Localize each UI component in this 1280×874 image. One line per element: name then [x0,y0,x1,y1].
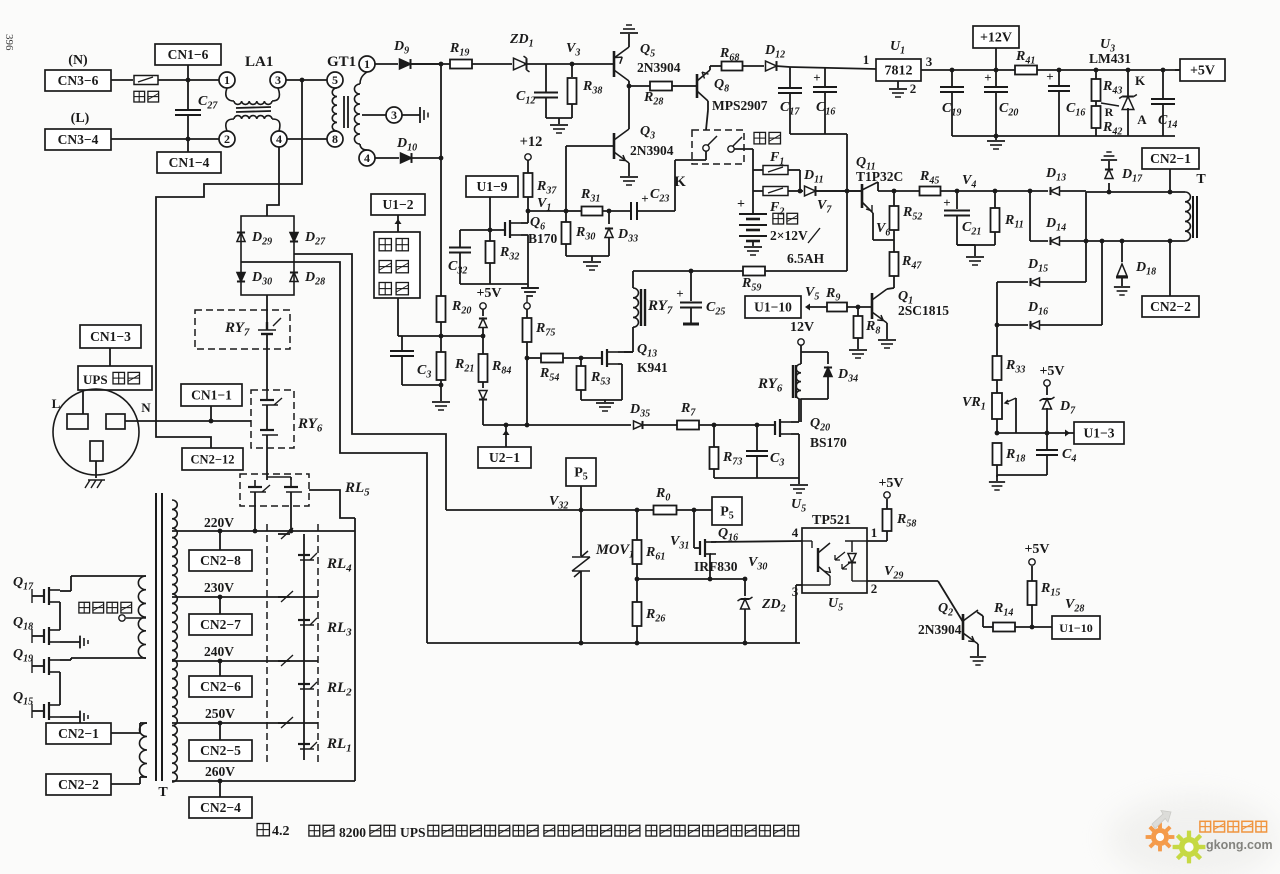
svg-text:T: T [158,785,168,800]
RL ladder solid bus [303,534,305,760]
diode D16 [997,324,1028,326]
wire R31 to C23 [603,210,630,212]
wire 250V tap [172,722,318,724]
svg-text:CN2−1: CN2−1 [1150,151,1191,166]
wire 12V down [800,345,802,364]
svg-text:BS170: BS170 [810,435,847,450]
svg-text:MOV1: MOV1 [595,542,634,561]
svg-text:gkong.com: gkong.com [1206,838,1273,852]
wire N to RY6 contacts [125,420,251,422]
wire Q6 gate [460,229,505,231]
wire pin2 V29 [867,580,938,582]
svg-text:2: 2 [224,132,230,146]
wire RL5 entry [266,474,268,480]
wire R41 to +5V box [1037,69,1180,71]
transformer T secondary winding [172,500,177,782]
wire Q17/Q18 drains [60,590,71,592]
resistor R41 [1015,66,1037,75]
connector U1-3 [1074,422,1124,444]
mosfet Q13 K941 [601,351,603,365]
resistor R7 [677,421,699,430]
wire Q5 emitter down [628,81,630,86]
wire 市电 box down [397,298,399,336]
resistor R28 [629,85,650,87]
terminal (R75 top) [524,303,530,309]
svg-text:CN2−2: CN2−2 [58,777,99,792]
wire CN3-4 to LA1 pin2 [111,138,219,140]
capacitor C16b [1058,70,1060,86]
svg-text:CN2−4: CN2−4 [200,800,241,815]
LA1 pin 4 [271,131,287,147]
svg-text:8: 8 [332,132,338,146]
svg-text:CN3−4: CN3−4 [58,132,99,147]
wire K right to fuses [734,148,753,150]
wire VR1 to U1-3 [996,419,998,433]
svg-text:250V: 250V [205,706,235,721]
power +5V box [1180,59,1225,81]
wire Q11 collector [877,182,879,191]
svg-text:CN2−5: CN2−5 [200,743,241,758]
svg-text:+5V: +5V [878,476,903,491]
mosfet Q19 [43,659,45,673]
diode D9 [375,63,398,65]
wire C3 top [402,335,441,337]
wire drain bus to winding top [71,575,146,577]
wire RL5 to 220V [254,492,256,531]
svg-text:2N3904: 2N3904 [630,143,674,158]
relay K contact box [692,130,744,164]
wire R14 to U1-10b [1015,626,1052,628]
svg-text:U1−10: U1−10 [754,300,792,315]
outlet prong N [106,414,125,429]
diode D17 [1108,183,1110,192]
wire Q11 emitter V6 [872,213,874,240]
ground (rail) [995,136,997,140]
wire R68 to D12 [743,65,764,67]
transistor Q11 T1P32C [861,184,864,208]
capacitor C12 [545,64,547,92]
battery 2x12V 6.5AH [739,213,767,215]
TP521 phototransistor [817,548,819,572]
GT1 core [343,96,345,128]
diode D30 [237,273,245,282]
LA1 pin 2 [219,131,235,147]
svg-text:+: + [676,286,683,301]
svg-text:+5V: +5V [1190,64,1215,79]
connector U1-10 [745,296,801,318]
svg-text:U1−3: U1−3 [1084,426,1115,441]
connector CN2-4 [189,797,252,818]
connector CN2-2b [46,774,111,795]
wire x1086 link [1085,192,1087,282]
LA1 pin 3 [270,72,286,88]
ground (C21) [966,256,984,258]
fuse F2 [753,190,763,192]
svg-text:(N): (N) [68,53,88,68]
relay coil RY7 [632,271,634,288]
wire E prong ground [95,461,97,478]
connector CN2-1 [1142,148,1199,169]
svg-text:CN2−6: CN2−6 [200,679,241,694]
diode D27 [290,233,298,242]
wire bridge to RY6 via RY7 [266,311,268,322]
RY6 contact lower [266,405,268,430]
fuse 保险 (input) [134,76,158,85]
wire D15/D16 to R33 [996,282,998,356]
transformer T primary lower [139,723,147,777]
outlet prong L [67,414,88,429]
relay RY7 contacts box [195,310,290,349]
resistor R59 [743,267,765,276]
label 保险 [134,91,145,102]
wire LA1-4 down to bridge [267,147,279,216]
resistor R58 [883,509,892,531]
svg-text:U1−2: U1−2 [383,197,414,212]
capacitor C23 [630,202,632,220]
wire RL5 right bus [309,490,355,518]
capacitor C32 [459,230,461,247]
svg-text:2N3904: 2N3904 [918,622,962,637]
svg-text:1: 1 [224,73,230,87]
wire Q20 bottom [714,477,799,479]
GT1 pin 5 [327,72,343,88]
ground above R75 [522,287,538,289]
wire CN3-6 to fuse [111,79,133,81]
svg-text:U2−1: U2−1 [489,450,520,465]
ground (C12/R38) [558,118,560,124]
bridge DC out B [294,262,427,643]
relay K contact 1 [703,145,709,151]
wire main left bus [440,64,442,296]
capacitor C27 [187,80,189,110]
wire R54 to Q13 gate [563,357,602,359]
label 电池正极 [79,602,90,613]
ground (R8) [849,349,867,351]
GT1 pin 1 [359,56,375,72]
svg-text:3: 3 [926,54,933,69]
ground (Q3) [620,176,638,178]
svg-text:2N3904: 2N3904 [637,60,681,75]
wire 240V tap [172,660,318,662]
svg-text:CN1−1: CN1−1 [191,388,232,403]
capacitor C17 [789,67,791,88]
wire C3 bottom [402,384,441,386]
wire U1-10 arrow [809,306,827,308]
wire Q8 emitter to R68 [709,66,711,70]
transformer T2 winding [1185,192,1190,241]
resistor R52 [893,191,895,206]
ground (GT1 pin3) [419,107,421,123]
outlet prong E [90,441,103,461]
resistor R31 [566,210,582,212]
transistor Q2 2N3904 [962,614,965,640]
wire Q1 base [847,306,872,308]
connector CN2-2 [1142,296,1199,317]
svg-text:+5V: +5V [476,286,501,301]
svg-text:B170: B170 [528,231,558,246]
wire R28 to Q8 [672,85,683,87]
mosfet Q17 [43,589,45,603]
zener ZD1 [514,58,527,70]
bridge rectangle [241,216,294,295]
resistor R84 [479,354,488,382]
wire Q13 source [618,363,622,365]
wire R30/D33 bottom [566,255,609,257]
wire Q3 emitter to ground [628,163,630,176]
wire R0 to P5b [677,509,712,511]
ground (Q18) [60,641,80,643]
wire Q1 collector [887,288,894,289]
resistor R8 [857,307,859,316]
diode D18 [1121,241,1123,262]
svg-text:4: 4 [276,132,282,146]
mosfet Q15 [43,704,45,718]
wire Q6 source [521,234,528,236]
wire bus x847 [846,134,848,271]
LA1 lower winding [226,119,234,131]
wire Q20 drain [791,421,799,423]
svg-text:240V: 240V [204,644,234,659]
relay coil RY6 [796,364,801,399]
wire CN2-2 up [1169,241,1171,296]
box 市电检测信号 [374,232,420,298]
connector CN1-3 [80,325,141,348]
ground (7812) [897,81,899,88]
connector CN2-12 [182,448,243,470]
wire R21 to ground [440,380,442,401]
label 保险 (relay) [754,132,766,144]
diode D84a [482,309,484,316]
RL5 contact b [290,480,292,487]
wire CN2-1 down [1169,169,1171,192]
diode D10 [375,157,399,159]
fuse F1 [753,169,763,171]
ground (Q1) [878,339,896,341]
ground (Q6) [527,284,529,287]
svg-text:UPS: UPS [400,825,426,840]
wire CN2-12 up [156,421,211,448]
wire Q5 collector to ground [628,34,630,47]
connector CN3-6 [45,70,111,91]
wire V32 rail [446,509,654,511]
svg-text:4: 4 [364,151,370,165]
zener D7 [1046,386,1048,395]
LA1 upper winding [226,88,234,101]
optocoupler U5 TP521 box [802,528,867,593]
wire UPS box to prong [82,390,84,414]
bridge bottom stub [266,295,268,311]
wire 260V tap [172,780,355,782]
connector CN2-5 [189,740,252,761]
wire pin1 [867,540,887,542]
svg-text:+5V: +5V [1024,542,1049,557]
svg-text:T: T [1196,172,1206,187]
wire x1102 link [1101,241,1103,325]
zener ZD2 [744,579,746,596]
relay RY6 contacts box [251,390,294,448]
transformer T2 top wire [1086,191,1185,193]
diode D29 [237,233,245,242]
wire R20 to junction [440,322,442,352]
svg-text:6.5AH: 6.5AH [787,251,825,266]
TP521 led diode [851,541,853,552]
junction R84 top [481,334,486,339]
connector CN1-1 [181,384,242,406]
wire D12 to 7812 [776,66,790,67]
svg-text:CN1−4: CN1−4 [169,155,210,170]
svg-text:+: + [984,70,991,85]
wire lower +12 rail [952,135,1175,137]
RL4 contact [278,533,290,535]
wire Q3 collector up [628,86,630,129]
resistor R54 [541,354,563,363]
svg-text:T1P32C: T1P32C [856,169,903,184]
svg-text:2: 2 [910,81,917,96]
wire bottom DC rail [427,642,800,644]
wire fuse to LA1 pin1 [158,79,219,81]
ground (R18) [989,481,1005,483]
svg-text:2SC1815: 2SC1815 [898,303,949,318]
svg-text:CN2−8: CN2−8 [200,553,241,568]
varistor MOV1 [580,510,582,556]
wire U2-1 up arrow [505,425,507,447]
wire +12V down [995,48,997,70]
wire 220V tap [172,530,355,532]
power +5V (R15) [1029,559,1035,565]
ground slant (outlet) [85,480,105,488]
resistor R53 [580,358,582,366]
connector CN1-4 [157,152,221,173]
resistor R14 [993,623,1015,632]
svg-text:CN2−2: CN2−2 [1150,299,1191,314]
svg-text:12V: 12V [790,320,814,335]
wire 7812 to +5V rail [921,69,1015,71]
transformer T core [155,493,157,781]
wire R59 to bus [765,270,847,272]
wire LA1-4 to GT1-8 [287,138,327,140]
resistor R26 [636,579,638,602]
wire R7 to Q20 gate [699,424,775,426]
resistor R21 [437,352,446,380]
ground above D17 [1101,159,1117,161]
diode D35 [634,421,643,429]
svg-text:+5V: +5V [1039,364,1064,379]
RY7 contact symbol [258,329,276,331]
wire Q20 source [791,433,799,435]
svg-text:+: + [737,197,745,212]
wire Q13 drain [618,351,624,353]
connector CN2-1b [46,723,111,744]
connector P5 b [712,497,742,525]
svg-text:220V: 220V [204,515,234,530]
mosfet Q20 BS170 [774,421,776,435]
ground (R53/Q13) [604,400,606,402]
wire CN1-4 up [187,139,189,152]
wire CN1-3 down [109,348,111,366]
LA1 pin 1 [219,72,235,88]
wire P5a down [580,486,582,510]
capacitor C25 [690,271,692,301]
RL5 contact a [254,480,256,487]
svg-text:+: + [641,191,648,206]
wire Q6 drain [521,222,528,224]
RL1 contact [278,722,290,724]
svg-text:2: 2 [871,581,878,596]
connector CN2-8 [189,550,252,571]
wire R18/C4 bottom [997,474,1047,476]
svg-text:396: 396 [3,34,15,51]
shunt ref U3 LM431 [1127,70,1129,96]
RL2 contact [278,660,290,662]
caption 图4.2 [257,824,269,836]
connector CN3-4 [45,129,111,150]
diode D14 [1030,240,1048,242]
svg-text:L: L [52,396,61,411]
mosfet Q16 IRF830 [699,541,701,555]
bridge DC out A [294,254,446,510]
svg-text:1: 1 [863,52,870,67]
wire C12/R38 bottom [546,117,572,119]
resistor R19 [411,63,450,65]
GT1 pin 4 [359,150,375,166]
transistor Q3 2N3904 [613,133,616,159]
resistor R18 [993,443,1002,465]
capacitor C19 [951,70,953,87]
svg-text:MPS2907: MPS2907 [712,98,768,113]
resistor R38 [571,64,573,77]
GT1 pin 3 [386,107,402,123]
resistor R20 [437,296,446,322]
wire R84 chain to D35 line [483,424,631,426]
svg-text:+: + [813,70,820,85]
RL3 contact [278,596,290,598]
potentiometer VR1 [992,393,1002,419]
svg-text:A: A [1137,112,1147,127]
power +5V (R58) [884,492,890,498]
wire ZD1 to Q5 base [524,63,614,65]
diode D28 [290,273,298,282]
wire V1 node [528,210,566,212]
wire LA1-3 to GT1-5 [286,79,327,81]
wire RY7 to Q13 drain [624,351,633,353]
svg-text:K: K [1135,73,1146,88]
resistor R33 [993,356,1002,380]
capacitor C4 [1046,433,1048,449]
capacitor C14 [1162,70,1164,99]
svg-text:8200: 8200 [339,825,366,840]
resistor R42 [1095,101,1097,106]
svg-text:IRF830: IRF830 [694,559,738,574]
svg-text:TP521: TP521 [812,513,851,528]
ground (Q15) [60,716,80,718]
connector U2-1 [478,447,531,468]
wire pin3 to rail [796,584,802,586]
IC U1 7812 [876,59,921,81]
svg-text:CN2−7: CN2−7 [200,617,241,632]
capacitor C3 [401,336,403,351]
svg-text:4.2: 4.2 [272,824,290,839]
ground (Q2) [970,656,986,658]
diode D12 [766,61,777,71]
wire battery rail [633,270,743,272]
svg-text:+12V: +12V [980,31,1012,46]
wire R61 to Q16 source rail [637,578,745,580]
resistor R30 [565,211,567,222]
capacitor C16 [824,68,826,87]
TP521 led arrows [835,552,852,569]
svg-text:LA1: LA1 [245,54,273,70]
ground (R30) [591,256,593,261]
